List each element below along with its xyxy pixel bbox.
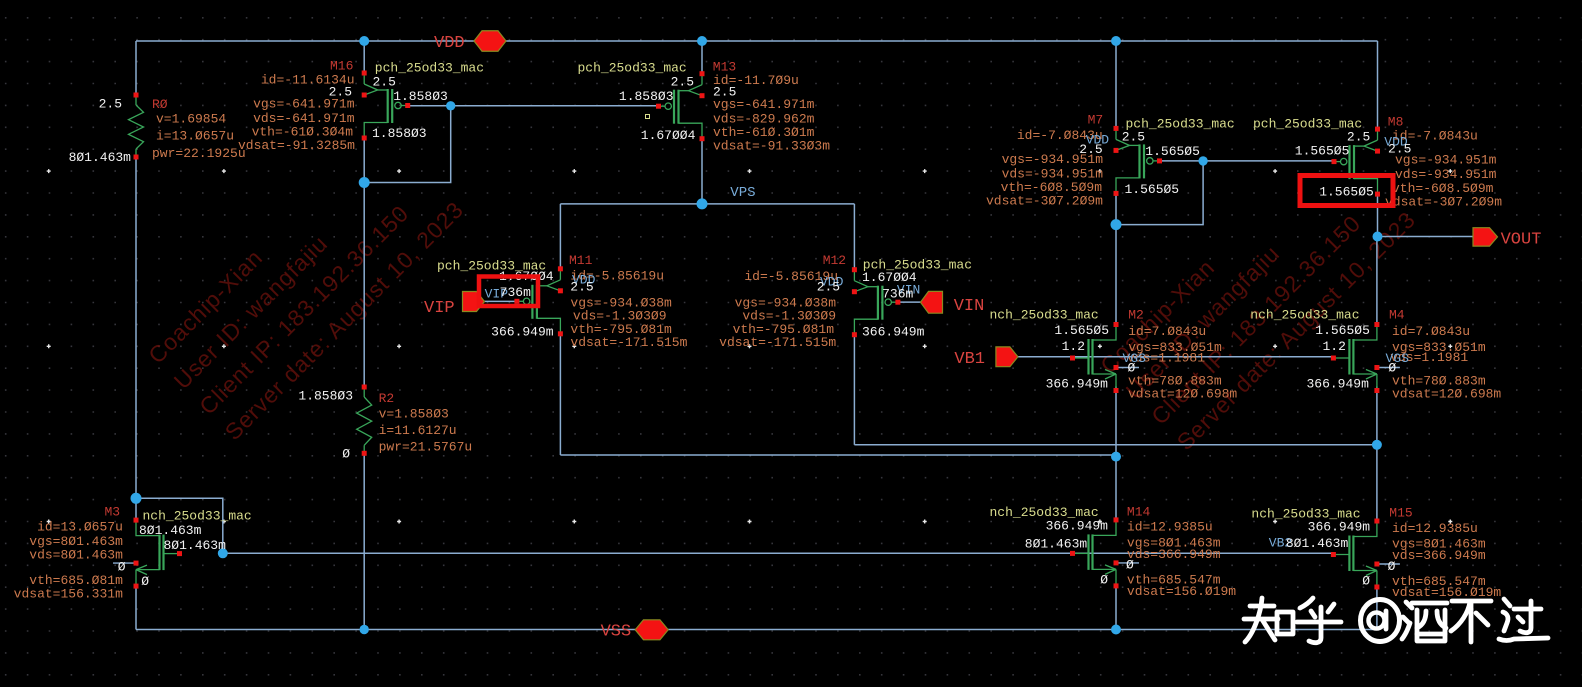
svg-text:2.5: 2.5 — [817, 280, 840, 295]
watermark copyright diagonal 2 — [1095, 206, 1420, 455]
svg-text:8Ø1.463m: 8Ø1.463m — [164, 538, 227, 553]
svg-text:vgs=-641.971m: vgs=-641.971m — [253, 97, 355, 112]
nmos M4 — [1353, 325, 1377, 341]
wire M4 node to M15 drain — [1376, 445, 1378, 521]
node M4 source/M15 drain — [1372, 440, 1382, 450]
svg-text:1.67ØØ4: 1.67ØØ4 — [641, 128, 696, 143]
nmos M2 — [1093, 325, 1117, 341]
wire M7 source drop — [1115, 41, 1117, 128]
svg-text:1.565Ø5: 1.565Ø5 — [1295, 144, 1350, 159]
wire M2 gate to M4 gate — [1073, 356, 1334, 358]
svg-text:vdsat=-91.3285m: vdsat=-91.3285m — [238, 138, 355, 153]
svg-text:vdsat=12Ø.698m: vdsat=12Ø.698m — [1128, 387, 1237, 402]
node VPS — [697, 198, 708, 209]
svg-text:Ø: Ø — [1100, 573, 1108, 588]
svg-text:Ø: Ø — [342, 447, 350, 462]
wire M7 diode loop — [1116, 161, 1203, 225]
wire VPS box right — [853, 204, 855, 269]
svg-text:id=7.Ø843u: id=7.Ø843u — [1128, 324, 1206, 339]
svg-text:366.949m: 366.949m — [1308, 520, 1371, 535]
wire VB1 to M2 gate — [1018, 356, 1073, 358]
svg-text:1.2: 1.2 — [1322, 339, 1345, 354]
svg-text:pch_25od33_mac: pch_25od33_mac — [578, 61, 687, 76]
node M2 source/VPS box — [1111, 452, 1121, 462]
svg-text:vdsat=-171.515m: vdsat=-171.515m — [570, 335, 687, 350]
svg-text:2.5: 2.5 — [1122, 130, 1145, 145]
svg-text:8Ø1.463m: 8Ø1.463m — [69, 150, 132, 165]
wire R0 to M3 drain — [135, 157, 137, 520]
node M3 gate — [218, 548, 228, 558]
svg-text:M4: M4 — [1389, 307, 1405, 322]
svg-text:v=1.69854: v=1.69854 — [156, 112, 226, 127]
svg-text:1.858Ø3: 1.858Ø3 — [393, 89, 448, 104]
svg-text:vds=8Ø1.463m: vds=8Ø1.463m — [29, 548, 123, 563]
pmos M8 — [1377, 129, 1379, 140]
svg-text:Ø: Ø — [1126, 558, 1134, 573]
svg-text:1.858Ø3: 1.858Ø3 — [298, 389, 353, 404]
wire VDD left drop to R0 — [135, 41, 137, 95]
svg-text:366.949m: 366.949m — [862, 324, 925, 339]
svg-text:pwr=21.5767u: pwr=21.5767u — [379, 440, 473, 455]
svg-text:1.565Ø5: 1.565Ø5 — [1125, 182, 1180, 197]
svg-text:nch_25od33_mac: nch_25od33_mac — [143, 509, 252, 524]
nmos M14 — [1093, 520, 1117, 536]
port VIP — [463, 292, 485, 312]
svg-text:1.2: 1.2 — [1062, 339, 1085, 354]
wire M8 drain to VOUT node — [1377, 194, 1379, 236]
node VOUT — [1373, 232, 1383, 242]
port VOUT — [1473, 228, 1498, 246]
svg-text:vgs=-934.951m: vgs=-934.951m — [1395, 153, 1497, 168]
node VDD/M13 — [697, 36, 707, 46]
wire M12 gate to VIN — [898, 301, 921, 303]
wire VB2 gate bus — [223, 552, 1334, 554]
svg-text:VPS: VPS — [730, 185, 755, 201]
pmos M16 — [363, 73, 365, 84]
svg-text:VIP: VIP — [424, 299, 455, 318]
nmos M3 — [136, 520, 160, 536]
node R2/VSS — [360, 625, 369, 634]
port VSS — [635, 620, 668, 640]
svg-text:8Ø1.463m: 8Ø1.463m — [139, 523, 202, 538]
svg-text:vdsat=156.Ø19m: vdsat=156.Ø19m — [1127, 584, 1236, 599]
port VB1 — [996, 347, 1018, 367]
node M14/VSS — [1111, 625, 1121, 635]
svg-text:VIN: VIN — [954, 297, 985, 316]
wire M2 drain drop to M14 — [1115, 457, 1117, 520]
svg-text:VSS: VSS — [601, 623, 632, 642]
svg-text:M14: M14 — [1127, 505, 1151, 520]
wire M15 source to VSS rail — [1376, 587, 1378, 630]
svg-text:pwr=22.1925u: pwr=22.1925u — [152, 146, 246, 161]
svg-text:nch_25od33_mac: nch_25od33_mac — [990, 308, 1099, 323]
svg-text:1.858Ø3: 1.858Ø3 — [372, 126, 427, 141]
svg-text:id=7.Ø843u: id=7.Ø843u — [1392, 324, 1470, 339]
svg-text:vds=-934.951m: vds=-934.951m — [1395, 167, 1497, 182]
wire M16 gate to M13 gate — [451, 105, 658, 107]
svg-text:M16: M16 — [330, 59, 353, 74]
wire VOUT node to M4 drain — [1376, 237, 1378, 325]
svg-text:Ø: Ø — [1128, 360, 1136, 375]
wire M14 source to VSS rail — [1115, 586, 1117, 630]
highlight box M8 drain 1.56505 — [1300, 176, 1393, 206]
wire VPS box bottom to M2 source node — [560, 454, 1116, 456]
svg-text:id=13.Ø657u: id=13.Ø657u — [37, 520, 123, 535]
svg-text:vds=366.949m: vds=366.949m — [1127, 547, 1221, 562]
svg-text:8Ø1.463m: 8Ø1.463m — [1025, 537, 1088, 552]
svg-text:736m: 736m — [500, 285, 531, 300]
node VDD/M16 — [359, 36, 369, 46]
wire VDD rail right drop to M8 — [1377, 41, 1379, 129]
node M16 gate-drain — [446, 101, 455, 110]
svg-text:2.5: 2.5 — [1347, 130, 1370, 145]
svg-text:v=1.858Ø3: v=1.858Ø3 — [379, 407, 449, 422]
svg-text:2.5: 2.5 — [99, 97, 122, 112]
svg-text:R2: R2 — [379, 391, 395, 406]
node M7 gate/M8 gate — [1198, 156, 1207, 165]
svg-text:vgs=-934.951m: vgs=-934.951m — [1002, 152, 1104, 167]
svg-text:id=12.9385u: id=12.9385u — [1127, 520, 1213, 535]
svg-text:1.565Ø5: 1.565Ø5 — [1054, 323, 1109, 338]
node M7 drain diode — [1111, 219, 1122, 230]
svg-text:RØ: RØ — [152, 97, 168, 112]
svg-text:2.5: 2.5 — [570, 280, 593, 295]
svg-text:M3: M3 — [105, 504, 121, 519]
svg-text:Ø: Ø — [1362, 574, 1370, 589]
svg-text:i=11.6127u: i=11.6127u — [379, 423, 457, 438]
svg-text:366.949m: 366.949m — [1306, 376, 1369, 391]
wire M13 source drop — [701, 41, 703, 74]
svg-text:Ø: Ø — [1388, 559, 1396, 574]
wire M7 node to M2 drain — [1115, 225, 1117, 325]
port VIN — [921, 291, 943, 313]
pmos M13 — [701, 74, 703, 85]
wire M7 drain to node — [1115, 193, 1117, 224]
watermark zhihu logo text — [1244, 598, 1548, 643]
svg-text:366.949m: 366.949m — [491, 324, 554, 339]
svg-text:2.5: 2.5 — [373, 75, 396, 90]
pmos M11 — [559, 269, 561, 280]
wire VOUT node to port — [1378, 236, 1474, 238]
pmos M7 — [1115, 128, 1117, 139]
watermark copyright diagonal 1 — [143, 196, 468, 445]
wire M4 source drop — [1376, 387, 1378, 445]
svg-text:Ø: Ø — [141, 574, 149, 589]
wire M16 gate loop — [364, 106, 451, 183]
wire M13 drain to VPS — [701, 139, 703, 204]
svg-text:vdsat=-3Ø7.2Ø9m: vdsat=-3Ø7.2Ø9m — [1385, 195, 1502, 210]
svg-text:1.858Ø3: 1.858Ø3 — [619, 89, 674, 104]
svg-text:M11: M11 — [569, 253, 593, 268]
resistor R2 — [363, 387, 365, 397]
wire M12 drain to M4 node — [854, 444, 1377, 446]
svg-text:vdsat=-171.515m: vdsat=-171.515m — [719, 335, 836, 350]
svg-text:VB1: VB1 — [954, 350, 985, 369]
svg-text:vdsat=-3Ø7.2Ø9m: vdsat=-3Ø7.2Ø9m — [986, 193, 1103, 208]
svg-text:1.565Ø5: 1.565Ø5 — [1145, 144, 1200, 159]
svg-text:8Ø1.463m: 8Ø1.463m — [1286, 536, 1349, 551]
node A M16 drain/R2 — [359, 177, 370, 188]
svg-text:Ø: Ø — [1388, 360, 1396, 375]
svg-text:M12: M12 — [823, 253, 846, 268]
port VDD — [474, 31, 506, 52]
svg-text:1.565Ø5: 1.565Ø5 — [1319, 185, 1374, 200]
svg-text:736m: 736m — [882, 287, 913, 302]
svg-text:M7: M7 — [1088, 113, 1104, 128]
svg-text:1.565Ø5: 1.565Ø5 — [1315, 323, 1370, 338]
svg-text:nch_25od33_mac: nch_25od33_mac — [1250, 308, 1359, 323]
svg-text:366.949m: 366.949m — [1046, 376, 1109, 391]
wire M16 source drop — [363, 41, 365, 73]
wire M11 drain down left edge — [559, 334, 561, 455]
node M3 drain tap — [131, 493, 142, 504]
svg-text:366.949m: 366.949m — [1046, 519, 1109, 534]
highlight box VIP/736m — [479, 277, 538, 307]
wire M7 gate to node — [1160, 160, 1204, 162]
svg-text:vgs=-641.971m: vgs=-641.971m — [713, 97, 815, 112]
resistor R0 — [135, 95, 137, 105]
svg-text:pch_25od33_mac: pch_25od33_mac — [375, 61, 484, 76]
wire M3 source to VSS rail — [135, 586, 137, 629]
svg-text:vdsat=12Ø.698m: vdsat=12Ø.698m — [1392, 387, 1501, 402]
wire VDD rail — [136, 40, 1378, 42]
node VDD/M7 — [1111, 36, 1121, 46]
wire VPS box top — [560, 203, 854, 205]
svg-text:M8: M8 — [1388, 115, 1404, 130]
wire R2 to VSS rail — [363, 453, 365, 629]
svg-text:vdsat=156.331m: vdsat=156.331m — [14, 587, 123, 602]
wire M7 gate node to M8 gate — [1203, 160, 1333, 162]
svg-text:2.5: 2.5 — [671, 74, 694, 89]
svg-text:id=12.9385u: id=12.9385u — [1392, 521, 1478, 536]
wire VPS box left — [559, 204, 561, 269]
wire M16 drain to node A — [363, 138, 365, 183]
svg-text:M2: M2 — [1128, 307, 1144, 322]
wire VIP to M11 gate — [485, 300, 517, 302]
pmos M12 — [853, 270, 855, 281]
svg-text:vdsat=-91.33Ø3m: vdsat=-91.33Ø3m — [713, 139, 830, 154]
svg-text:vds=366.949m: vds=366.949m — [1392, 548, 1486, 563]
label M13 origin marker — [646, 115, 650, 119]
wire node A to R2 — [363, 183, 365, 388]
svg-text:Ø: Ø — [118, 559, 126, 574]
svg-text:VDD: VDD — [434, 34, 465, 53]
svg-text:VOUT: VOUT — [1501, 231, 1542, 250]
wire VSS rail — [136, 629, 1378, 631]
wire M3 drain tap — [136, 498, 223, 553]
svg-text:vdsat=156.Ø19m: vdsat=156.Ø19m — [1392, 585, 1501, 600]
svg-text:i=13.Ø657u: i=13.Ø657u — [156, 129, 234, 144]
svg-text:pch_25od33_mac: pch_25od33_mac — [1253, 117, 1362, 132]
wire M12 drain down right edge — [853, 334, 855, 445]
wire M2 source node drop — [1115, 387, 1117, 457]
svg-text:M15: M15 — [1389, 506, 1412, 521]
nmos M15 — [1353, 521, 1377, 537]
